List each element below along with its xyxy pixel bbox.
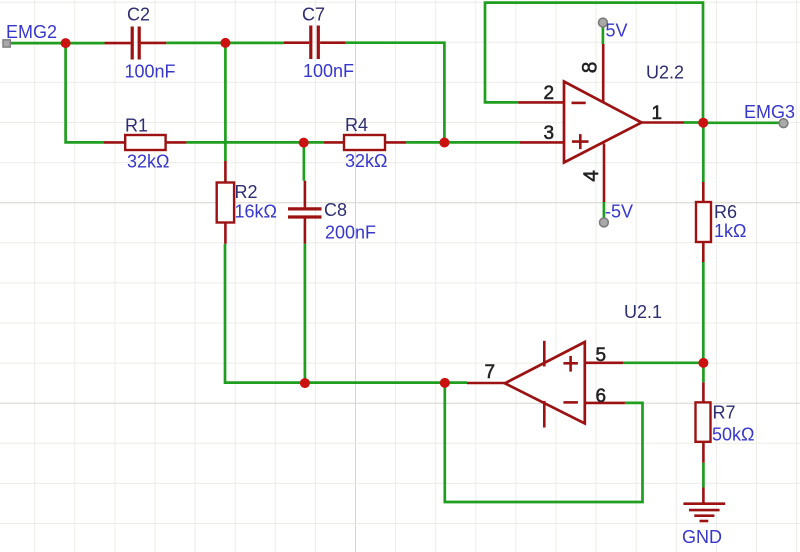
wire R6 pins [702,182,705,202]
node junction [698,118,708,128]
wire output node down to R6 [702,123,705,183]
capacitor C7 [302,4,354,81]
wire U2.1 pin 5 [585,361,623,364]
svg-text:32kΩ: 32kΩ [127,152,169,172]
node junction [440,378,450,388]
wire C7 pins [284,41,309,44]
wire 5V terminal stub [602,27,605,45]
svg-text:1: 1 [652,103,663,124]
svg-text:EMG2: EMG2 [6,22,57,42]
wire C2 to C7 [166,42,283,45]
wire R2 bottom to bus [225,244,445,383]
svg-text:EMG3: EMG3 [744,102,795,122]
svg-text:-5V: -5V [605,202,633,222]
svg-text:R6: R6 [714,202,737,222]
svg-text:7: 7 [485,362,496,383]
node junction [300,378,310,388]
svg-text:2: 2 [544,83,555,104]
svg-text:4: 4 [580,170,603,182]
svg-text:1kΩ: 1kΩ [714,221,746,241]
wire R4 to op-amp pin 3 [406,141,520,144]
wire R4 pins [324,141,344,144]
svg-text:R2: R2 [235,182,258,202]
wire EMG2 to C2 [5,42,105,45]
ground GND [682,488,725,548]
svg-text:100nF: 100nF [303,61,354,81]
wire U2.1 pin 6 [585,402,625,405]
svg-text:5V: 5V [606,21,628,41]
capacitor C2 [125,5,176,82]
node junction [61,38,71,48]
wire mid bus node down to C8 [303,142,306,180]
svg-text:6: 6 [596,386,607,407]
wire C7 out, down to mid node [345,43,444,143]
wire -5V terminal stub [603,202,606,218]
wire C2 pins [105,42,131,45]
power terminal -5V [600,202,634,227]
wire U2.2 pin 4 (-5V) [603,144,606,203]
wire pin1 to output node [684,121,703,124]
svg-text:C8: C8 [324,200,347,220]
wire C8 bottom to bus [304,244,307,383]
node junction [299,138,309,148]
wire output node to EMG3 [703,121,781,124]
resistor R6 [696,202,746,242]
wire U2.2 pin 3 [520,141,564,144]
wire pin 5 to node [623,361,703,364]
svg-text:U2.1: U2.1 [624,302,662,322]
svg-text:C2: C2 [127,5,150,25]
svg-text:U2.2: U2.2 [646,62,684,82]
resistor R1 [125,115,169,171]
wire R1 to R4 [186,141,323,144]
svg-text:16kΩ: 16kΩ [235,202,277,222]
node junction [220,38,230,48]
resistor R2 [217,182,277,223]
svg-text:R7: R7 [713,402,736,422]
svg-text:100nF: 100nF [125,61,176,81]
wire U2.2 pin 2 [518,101,564,104]
svg-text:200nF: 200nF [325,222,376,242]
svg-text:GND: GND [682,527,722,547]
node junction [698,358,708,368]
wire EMG2 node down to R1 [66,43,104,142]
svg-text:R4: R4 [345,115,368,135]
svg-text:C7: C7 [302,4,325,24]
op-amp U2.1 [505,302,662,428]
resistor R7 [696,402,755,444]
wire U2.1 feedback loop (pin 6 to bus node) [445,383,643,502]
capacitor C8 [288,200,376,242]
svg-text:R1: R1 [125,115,148,135]
svg-text:5: 5 [596,345,607,366]
svg-text:50kΩ: 50kΩ [712,425,754,445]
op-amp U2.2 [564,62,684,162]
wire R6 to pin5 node [702,262,705,363]
wire R7 to GND [702,463,705,488]
wire R7 pins [702,382,705,402]
terminal EMG3 [744,102,795,128]
wire node to R7 [702,363,705,383]
wire top node down through mid bus to R2 [224,43,227,161]
terminal EMG2 [3,22,57,47]
node junction [439,138,449,148]
wire R1 pins [104,141,126,144]
power terminal 5V [599,18,628,40]
wire U2.2 pin 1 [641,121,684,124]
svg-text:32kΩ: 32kΩ [345,151,387,171]
svg-text:3: 3 [544,123,555,144]
wire R2 pins [224,161,227,183]
resistor R4 [344,115,387,171]
wire C8 pins [304,181,307,208]
wire U2.2 pin 8 (5V) [602,44,605,103]
wire U2.1 pin 7 [467,382,506,385]
svg-text:8: 8 [579,62,602,74]
wire U2.2 feedback loop (output to pin 2) [485,3,703,123]
wire bus node to pin 7 [445,381,467,384]
